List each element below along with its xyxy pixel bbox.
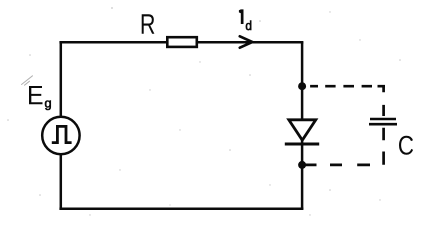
- resistor R: [167, 37, 197, 47]
- wire right vertical: [301, 42, 304, 209]
- wire bottom: [59, 208, 303, 211]
- diode D: [285, 120, 319, 144]
- dashed wire bottom from capacitor: [305, 164, 370, 167]
- node junction bottom: [298, 161, 306, 169]
- wire left vertical: [60, 41, 63, 210]
- label C: [399, 136, 413, 155]
- label Id: [239, 9, 244, 24]
- label R: [142, 14, 155, 34]
- source Eg: [42, 117, 79, 154]
- dashed wire right upper vertical: [382, 85, 385, 116]
- dashed wire top to capacitor: [310, 85, 385, 88]
- label Eg: [29, 86, 43, 104]
- wire top: [59, 41, 303, 44]
- dashed wire right lower vertical: [382, 128, 385, 165]
- current arrow Id: [240, 36, 253, 47]
- node junction top: [298, 82, 306, 90]
- capacitor C: [369, 119, 397, 124]
